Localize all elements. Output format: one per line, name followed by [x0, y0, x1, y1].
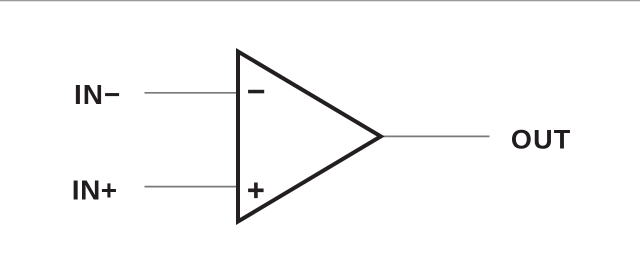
op-amp U1 triangle [238, 52, 381, 222]
op-amp inverting input marker - [248, 90, 264, 94]
svg-text:IN+: IN+ [72, 175, 118, 206]
wire output [383, 135, 490, 137]
wire inverting input [145, 92, 237, 94]
svg-text:OUT: OUT [511, 124, 572, 154]
wire non-inverting input [145, 186, 237, 188]
svg-text:IN−: IN− [74, 79, 121, 110]
op-amp non-inverting input marker + [248, 183, 264, 199]
